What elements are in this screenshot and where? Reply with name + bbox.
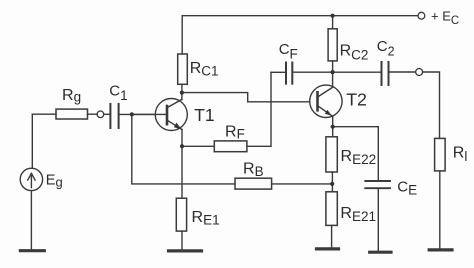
svg-text:CE: CE — [397, 178, 417, 197]
svg-text:CF: CF — [279, 41, 298, 62]
svg-text:T1: T1 — [194, 105, 214, 125]
svg-text:C1: C1 — [109, 83, 127, 103]
svg-text:Rg: Rg — [62, 87, 81, 105]
svg-text:RE1: RE1 — [192, 209, 220, 228]
svg-text:Eg: Eg — [46, 173, 63, 190]
svg-text:+ EC: + EC — [431, 8, 459, 27]
svg-text:T2: T2 — [346, 90, 367, 110]
svg-text:RE21: RE21 — [340, 205, 376, 224]
svg-text:RF: RF — [225, 124, 245, 142]
svg-text:RB: RB — [243, 161, 264, 179]
svg-text:Rl: Rl — [453, 145, 468, 164]
svg-text:C2: C2 — [377, 38, 395, 59]
svg-text:RC1: RC1 — [190, 60, 219, 79]
svg-text:RC2: RC2 — [340, 42, 369, 62]
svg-text:RE22: RE22 — [341, 148, 377, 167]
